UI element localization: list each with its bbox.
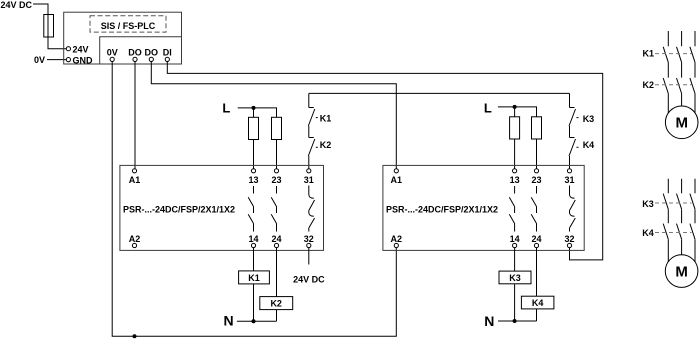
contact 31-32 (NC feedback contact, K1-PSR)	[309, 186, 315, 232]
pin A1 (K1-PSR)	[129, 169, 141, 185]
wire 24V DC to fuse F1	[33, 4, 48, 15]
pin 0V	[107, 47, 118, 61]
pin 24V	[66, 45, 88, 55]
svg-text:K4: K4	[583, 140, 595, 150]
pin DI	[163, 47, 172, 61]
svg-text:13: 13	[510, 175, 520, 185]
fuse F5 (right, to pin 23)	[532, 117, 542, 139]
pin 31 (K2-PSR)	[564, 169, 574, 185]
contact K2 (NC, feedback left)	[308, 138, 315, 169]
svg-text:K3: K3	[583, 114, 595, 124]
svg-text:DI: DI	[163, 47, 172, 57]
svg-text:A2: A2	[391, 234, 403, 244]
pin GND	[66, 56, 93, 66]
svg-text:K2: K2	[270, 299, 282, 309]
svg-text:K1: K1	[643, 49, 655, 59]
wire motor feeder phase L2 (top drive)	[681, 31, 683, 106]
wire motor feeder phase L3 (bottom drive)	[694, 179, 696, 262]
wire N (right)	[498, 320, 537, 322]
svg-text:A2: A2	[129, 234, 141, 244]
junction L / fuse F4 tap	[513, 105, 517, 109]
svg-text:M: M	[675, 264, 688, 281]
contact 13-14 (NO safety contact, K2-PSR)	[509, 186, 514, 232]
junction N / coil K3	[513, 319, 517, 323]
pin 14 (K1-PSR)	[248, 234, 258, 248]
svg-text:N: N	[223, 313, 233, 329]
svg-text:24V: 24V	[73, 45, 89, 55]
contact K2 (3-pole NO, top drive)	[663, 78, 695, 94]
fuse F2 (left, to pin 13)	[249, 117, 259, 139]
svg-text:0V: 0V	[34, 55, 45, 65]
label K3	[577, 114, 595, 124]
svg-text:K4: K4	[642, 228, 654, 238]
svg-text:K4: K4	[532, 298, 544, 308]
wire pin 24 to coil K4	[536, 248, 538, 297]
motor M1	[665, 106, 698, 139]
wire pin 14 to coil K1	[253, 248, 255, 271]
svg-text:14: 14	[510, 234, 520, 244]
wire 0V rail (PLC 0V down, along bottom, up to K2-PSR A2)	[112, 62, 396, 337]
pin 13 (K1-PSR)	[248, 169, 258, 185]
svg-text:K2: K2	[643, 80, 655, 90]
fuse F4 (right, to pin 13)	[510, 117, 520, 139]
contact 31-32 (NC feedback contact, K2-PSR)	[570, 186, 576, 232]
contact K1 (NC, feedback left)	[308, 93, 315, 137]
motor M2	[665, 255, 698, 288]
pin 14 (K2-PSR)	[510, 234, 520, 248]
wire fuse F1 to PLC 24V pin	[48, 37, 66, 49]
wire N (left)	[237, 320, 277, 322]
relay K2-PSR box	[383, 165, 584, 250]
wire motor feeder phase L1 (bottom drive)	[667, 179, 669, 262]
svg-text:24V DC: 24V DC	[293, 275, 325, 285]
pin 13 (K2-PSR)	[510, 169, 520, 185]
junction 0V rail / A2 of K1-PSR	[133, 334, 137, 338]
pin A1 (K2-PSR)	[391, 169, 403, 185]
label K2	[316, 140, 332, 150]
wire DI feedback loop to pin 32 of K2-PSR	[167, 62, 602, 260]
pin A2 (K2-PSR)	[391, 234, 403, 248]
pin DO2	[145, 47, 159, 61]
label K4 (bottom drive)	[642, 228, 691, 238]
pin 23 (K2-PSR)	[531, 169, 541, 185]
wire DO2 to A1 of K2-PSR	[151, 62, 396, 169]
svg-text:23: 23	[531, 175, 541, 185]
svg-text:L: L	[484, 101, 492, 116]
svg-text:13: 13	[248, 175, 258, 185]
fuse F1	[44, 15, 54, 38]
coil K1	[239, 271, 270, 284]
contact K4 (NC, feedback right)	[569, 138, 576, 169]
svg-text:14: 14	[248, 234, 258, 244]
contact K3 (3-pole NO, bottom drive)	[663, 194, 695, 210]
wire coil K1 to N	[253, 284, 255, 321]
wire fuse F5 to pin 23	[536, 139, 538, 169]
pin 24 (K2-PSR)	[531, 234, 541, 248]
svg-text:K1: K1	[320, 113, 332, 123]
relay K1-PSR box	[120, 165, 324, 250]
wire coil K3 to N	[514, 284, 516, 321]
wire L to fuses (left)	[238, 108, 277, 117]
pin 31 (K1-PSR)	[304, 169, 314, 185]
svg-text:DO: DO	[128, 47, 142, 57]
contact 13-14 (NO safety contact, K1-PSR)	[248, 186, 253, 232]
svg-text:24V DC: 24V DC	[1, 0, 33, 10]
wire pin 32 to 24V DC	[308, 248, 310, 265]
coil K3	[499, 271, 531, 284]
contact 23-24 (NO safety contact, K2-PSR)	[531, 186, 536, 232]
svg-text:32: 32	[564, 234, 574, 244]
svg-text:K3: K3	[642, 199, 654, 209]
wire motor feeder phase L2 (bottom drive)	[681, 179, 683, 255]
svg-text:23: 23	[271, 175, 281, 185]
wire motor feeder phase L1 (top drive)	[667, 31, 669, 113]
fuse F3 (left, to pin 23)	[272, 117, 282, 139]
pin 32 (K1-PSR)	[304, 234, 314, 248]
svg-text:PSR-...-24DC/FSP/2X1/1X2: PSR-...-24DC/FSP/2X1/1X2	[386, 205, 498, 215]
wire feedback top rail (K1/K2 column to K3/K4 column)	[309, 92, 570, 94]
label K3 (bottom drive)	[642, 199, 691, 209]
contact K4 (3-pole NO, bottom drive)	[663, 224, 695, 240]
coil K4	[521, 296, 554, 309]
svg-text:24: 24	[531, 234, 541, 244]
wire coil K4 to N	[536, 309, 538, 321]
pin 24 (K1-PSR)	[271, 234, 281, 248]
svg-text:PSR-...-24DC/FSP/2X1/1X2: PSR-...-24DC/FSP/2X1/1X2	[123, 205, 235, 215]
svg-text:L: L	[222, 101, 230, 116]
wire motor feeder phase L3 (top drive)	[694, 31, 696, 113]
svg-text:31: 31	[564, 175, 574, 185]
wire fuse F2 to pin 13	[253, 140, 255, 169]
wire DO1 to A1 of K1-PSR	[134, 62, 136, 169]
contact K3 (NC, feedback right)	[569, 93, 576, 137]
contact 23-24 (NO safety contact, K1-PSR)	[271, 186, 276, 232]
pin 32 (K2-PSR)	[564, 234, 574, 248]
svg-text:24: 24	[271, 234, 281, 244]
junction N / coil K1	[252, 319, 256, 323]
wire pin 14 to coil K3	[514, 248, 516, 272]
wire fuse F4 to pin 13	[514, 139, 516, 169]
label K1	[316, 113, 332, 123]
PLC U1 box	[64, 12, 182, 64]
wire L to fuses (right)	[498, 107, 537, 117]
label K2 (top drive)	[643, 80, 692, 90]
contact K1 (3-pole NO, top drive)	[663, 47, 695, 63]
svg-text:K1: K1	[248, 273, 260, 283]
PLC label SIS / FS-PLC (dashed frame)	[90, 16, 166, 32]
svg-text:A1: A1	[391, 175, 403, 185]
svg-text:SIS / FS-PLC: SIS / FS-PLC	[101, 21, 156, 31]
svg-text:32: 32	[304, 234, 314, 244]
wire coil K2 to N	[276, 310, 278, 322]
svg-text:0V: 0V	[107, 47, 118, 57]
pin A2 (K1-PSR)	[129, 234, 141, 248]
svg-text:GND: GND	[73, 56, 94, 66]
pin DO1	[128, 47, 142, 61]
svg-text:K3: K3	[509, 273, 521, 283]
PLC IO section divider	[100, 37, 182, 64]
svg-text:A1: A1	[129, 175, 141, 185]
pin 23 (K1-PSR)	[271, 169, 281, 185]
svg-text:K2: K2	[320, 140, 332, 150]
wire 0V to PLC GND pin	[47, 59, 66, 61]
coil K2	[260, 297, 293, 310]
svg-text:31: 31	[304, 175, 314, 185]
junction L / fuse F2 tap	[252, 106, 256, 110]
label K4	[577, 140, 595, 150]
svg-text:M: M	[675, 115, 688, 132]
wire fuse F3 to pin 23	[276, 140, 278, 169]
label K1 (top drive)	[643, 49, 692, 59]
svg-text:DO: DO	[145, 47, 159, 57]
svg-text:N: N	[484, 313, 494, 329]
wire pin 24 to coil K2	[276, 248, 278, 297]
